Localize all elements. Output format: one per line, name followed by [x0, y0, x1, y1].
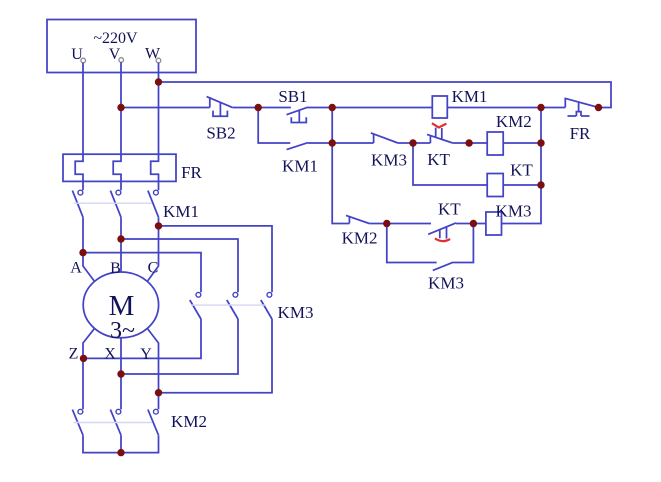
node E	[383, 220, 390, 227]
node C	[537, 104, 544, 111]
svg-text:KM1: KM1	[452, 87, 488, 106]
node Z	[80, 355, 87, 362]
KM3 linkage	[191, 304, 266, 306]
node W top	[155, 78, 162, 85]
KT delay arc row4	[435, 238, 450, 241]
contactor KM2 main contact 2	[110, 409, 121, 435]
wire KM1 aux to node B2	[308, 142, 333, 144]
wire KM3 row5 to node F	[453, 224, 473, 263]
contactor KM1 main contact phase U	[72, 190, 83, 217]
coil KM1	[432, 96, 447, 118]
wire KM3 contact3 return to Y	[159, 319, 273, 393]
wire node A down	[258, 108, 290, 144]
node V row2	[117, 104, 124, 111]
terminal V	[119, 58, 124, 63]
contactor KM3 contact 2	[227, 292, 238, 319]
terminal W	[156, 58, 161, 63]
coil KM2	[487, 132, 503, 155]
wire KM3 contact2 return to X	[121, 319, 238, 374]
svg-text:KM3: KM3	[278, 303, 314, 322]
node Y	[155, 389, 162, 396]
thermal relay FR box	[63, 154, 176, 181]
power source box ~220V	[47, 20, 196, 73]
wire node E down row5	[387, 224, 437, 263]
contactor KM2 NC contact	[346, 215, 369, 223]
node V feed	[117, 235, 124, 242]
KT delay chevron	[432, 123, 447, 127]
wire node F to KM3 coil	[473, 223, 486, 225]
svg-text:Y: Y	[140, 346, 152, 363]
svg-text:KM2: KM2	[496, 112, 532, 131]
contactor KM2 main contact 1	[72, 409, 83, 435]
node D	[409, 139, 416, 146]
node B2	[329, 139, 336, 146]
wire SB1 to node B	[307, 107, 332, 109]
svg-text:KM3: KM3	[496, 202, 532, 221]
node FR right	[595, 104, 602, 111]
wire KM2 star bar	[83, 435, 159, 452]
wire node D down to KT coil	[413, 143, 487, 185]
node star point	[117, 449, 124, 456]
terminal U	[81, 58, 86, 63]
wire U to motor A	[83, 217, 95, 281]
svg-text:FR: FR	[181, 163, 202, 182]
wire V to motor B	[120, 217, 122, 272]
svg-text:X: X	[104, 346, 116, 363]
svg-text:KM1: KM1	[163, 202, 199, 221]
svg-text:SB1: SB1	[278, 87, 307, 106]
wire KM2 NC to node E	[369, 223, 387, 225]
node W feed	[155, 222, 162, 229]
node X	[117, 370, 124, 377]
contactor KM3 contact 3	[261, 292, 272, 319]
node A	[255, 104, 262, 111]
wire KT row4 to node F	[456, 223, 473, 225]
node KT right	[465, 139, 472, 146]
svg-text:Z: Z	[69, 346, 79, 363]
wire phase U with FR heater jog	[75, 63, 83, 190]
wire node B to KM1 coil	[332, 107, 432, 109]
svg-text:KM2: KM2	[171, 412, 207, 431]
wire KT coil to right rail	[503, 184, 541, 186]
node U feed	[79, 249, 86, 256]
wire right rail	[502, 108, 542, 224]
wire SB2 to node A	[232, 107, 258, 109]
pushbutton SB2 NC	[207, 97, 233, 117]
node B	[329, 104, 336, 111]
wire motor Z lead down	[83, 328, 95, 409]
node KT coil right	[537, 181, 544, 188]
svg-text:KM3: KM3	[428, 274, 464, 293]
svg-text:KM3: KM3	[371, 151, 407, 170]
contactor KM2 main contact 3	[148, 409, 159, 435]
svg-text:SB2: SB2	[206, 124, 235, 143]
node KM2 coil right	[537, 139, 544, 146]
svg-text:A: A	[70, 260, 82, 277]
svg-text:FR: FR	[570, 124, 591, 143]
timer KT delayed closing contact row4	[428, 223, 456, 239]
wire motor Y lead down	[147, 328, 158, 409]
contactor KM1 main contact phase V	[110, 190, 121, 217]
wire phase W with FR heater jog	[151, 63, 159, 190]
contactor KM3 aux NO contact row5	[433, 262, 454, 270]
svg-text:B: B	[110, 260, 121, 277]
motor M	[83, 272, 158, 338]
thermal relay FR NC contact	[541, 98, 599, 116]
wire node B2 down to row4	[332, 143, 349, 224]
svg-text:KT: KT	[510, 161, 533, 180]
wire KM3 NC to node D	[398, 142, 413, 144]
contactor KM1 aux NO contact	[287, 143, 308, 150]
contactor KM1 main contact phase W	[148, 190, 159, 217]
node F	[470, 220, 477, 227]
timer KT delayed contact row3	[413, 128, 453, 143]
wire node E to KT row4	[387, 223, 431, 225]
KM1 linkage	[74, 202, 153, 204]
wire KT to KM2 coil	[453, 142, 488, 144]
svg-text:KM1: KM1	[282, 157, 318, 176]
svg-text:KT: KT	[438, 200, 461, 219]
wire node B2 to KM3 NC	[332, 142, 373, 144]
wire node A to SB1	[258, 107, 291, 109]
svg-text:C: C	[148, 260, 159, 277]
wire W feed to KM3 contact 3	[159, 226, 273, 292]
wire node B to node B2	[331, 108, 333, 144]
svg-text:3~: 3~	[110, 318, 135, 344]
coil KT	[487, 174, 503, 197]
pushbutton SB1 NO	[287, 107, 308, 122]
wire KM2 coil to right rail	[503, 142, 541, 144]
contactor KM3 contact 1	[190, 292, 201, 319]
wire KM1 coil to node C	[447, 107, 541, 109]
wire control row2 left	[121, 107, 210, 109]
wire W to motor C	[147, 217, 158, 281]
coil KM3	[486, 212, 502, 235]
svg-text:~220V: ~220V	[93, 30, 138, 47]
svg-text:KT: KT	[427, 150, 450, 169]
wire phase V with FR heater jog	[113, 62, 121, 190]
wire control top row	[159, 82, 612, 108]
KM2 linkage	[74, 422, 153, 424]
wire KM3 contact1 return to Z	[83, 319, 201, 358]
wire motor X lead down	[120, 338, 122, 410]
wire U feed to KM3 contact 1	[83, 253, 201, 293]
wire V feed to KM3 contact 2	[121, 239, 238, 292]
contactor KM3 NC contact	[371, 133, 398, 143]
svg-text:KM2: KM2	[342, 229, 378, 248]
